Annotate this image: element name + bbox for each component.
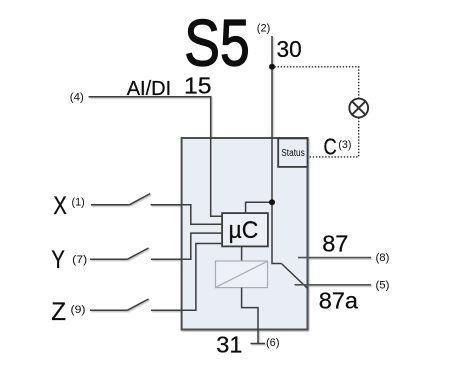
wire 30 branch to uC	[246, 202, 272, 213]
svg-text:(4): (4)	[70, 92, 84, 104]
svg-text:C: C	[324, 134, 337, 160]
relay coil diagonal	[216, 261, 267, 287]
switch blade Y	[128, 248, 149, 259]
terminal tick 31	[251, 343, 266, 345]
svg-text:(6): (6)	[266, 337, 280, 349]
svg-text:(1): (1)	[72, 196, 85, 208]
wire 15/AI-DI input (pin 4)	[89, 97, 223, 216]
switch blade Z	[128, 299, 149, 310]
svg-text:(3): (3)	[338, 139, 351, 151]
lamp L1	[349, 99, 368, 118]
svg-text:X: X	[53, 192, 67, 220]
wire Y input (pin 7)	[90, 258, 128, 260]
svg-text:87: 87	[322, 230, 348, 256]
svg-text:(9): (9)	[71, 304, 86, 316]
wire X input (pin 1)	[91, 204, 129, 206]
svg-text:(8): (8)	[376, 252, 390, 264]
junction dot on 30 wire at lamp branch	[269, 64, 275, 70]
wire 30 vertical (pin 2)	[272, 36, 281, 264]
svg-text:(7): (7)	[72, 254, 87, 266]
svg-text:87a: 87a	[319, 287, 359, 313]
wire Z to uC	[151, 244, 222, 311]
dotted wire lamp to status box (node C)	[308, 118, 358, 157]
svg-text:S5: S5	[184, 6, 250, 80]
wire Z input (pin 9)	[90, 309, 128, 311]
relay module body K1	[182, 138, 308, 330]
junction dot on 30 wire at uC branch	[269, 199, 275, 205]
wire coil to 31 (pin 6)	[242, 288, 258, 344]
svg-text:µC: µC	[229, 217, 259, 244]
wire 87a output (pin 5)	[295, 284, 372, 286]
relay contact arm to 87a	[281, 264, 307, 289]
uC box U1	[222, 213, 268, 246]
dotted wire 30 to lamp	[275, 67, 359, 99]
svg-text:31: 31	[216, 332, 242, 358]
relay coil K1	[216, 261, 268, 288]
wire uC to relay coil	[241, 246, 243, 261]
svg-text:(5): (5)	[376, 279, 390, 291]
svg-text:30: 30	[277, 36, 302, 62]
switch blade X	[129, 194, 150, 205]
svg-text:(2): (2)	[257, 23, 271, 35]
svg-text:Y: Y	[51, 246, 65, 274]
svg-text:15: 15	[184, 73, 212, 99]
status indicator box	[278, 138, 307, 167]
svg-text:Z: Z	[51, 298, 66, 326]
svg-text:Status: Status	[281, 148, 305, 159]
wire X to uC	[151, 205, 223, 225]
wire 87 output (pin 8)	[298, 257, 371, 259]
wire Y to uC	[151, 233, 222, 259]
svg-text:AI/DI: AI/DI	[127, 78, 171, 100]
